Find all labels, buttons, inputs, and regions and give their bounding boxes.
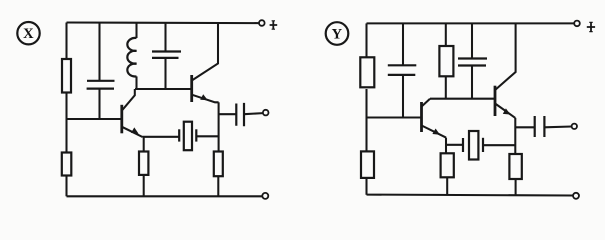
transistor Q1 (122, 89, 143, 137)
wire: Y bottom rail (367, 194, 574, 197)
transistor Q2 (192, 23, 219, 103)
transistor Q4 (495, 23, 516, 118)
resistor R9 (Q4 emitter) (509, 154, 521, 179)
resistor R5 (upper bias) (360, 57, 374, 87)
wire: X Q1 emitter to crystal (143, 136, 180, 138)
svg-text:X: X (23, 26, 34, 42)
transistor Q3 (422, 99, 447, 138)
wire: X left branch lower (R2 to bottom rail) (65, 176, 67, 197)
resistor R7 (collector load) (439, 23, 453, 98)
wire: Y base wire (367, 116, 422, 118)
wire: R4 to bottom rail (217, 176, 219, 196)
wire: crystal to Q4 emitter line (483, 144, 515, 146)
capacitor C1 (base bypass to rail) (87, 23, 115, 120)
terminal: X common (bottom right) (262, 193, 268, 199)
label: Y plus sign (587, 22, 595, 31)
capacitor C6 (output coupling) (535, 116, 545, 137)
terminal: Y output (572, 124, 577, 129)
wire: Y collector node (to Q4 base) (430, 98, 495, 100)
wire: X top supply rail (67, 21, 260, 24)
wire: Y left branch lower (365, 178, 367, 195)
resistor R6 (lower bias) (361, 151, 374, 178)
wire: X base wire (divider node to Q1 base) (67, 118, 122, 120)
wire: Y top supply rail (367, 22, 574, 24)
crystal XTAL2 (463, 131, 483, 160)
label X (circled) (17, 22, 39, 44)
wire: Y left branch upper (365, 23, 367, 57)
wire: X left branch middle (R1 to R2 through base node) (65, 93, 67, 153)
terminal: Y V+ (top right) (574, 21, 580, 27)
resistor R1 (upper bias) (62, 59, 71, 93)
resistor R4 (Q2 emitter) (214, 152, 223, 177)
svg-text:Y: Y (332, 26, 343, 42)
wire: X Q1 emitter resistor drop (143, 137, 145, 152)
inductor L1 (collector tank coil) (127, 23, 136, 90)
wire: Y Q4 emitter vertical (514, 118, 516, 154)
resistor R3 (Q1 emitter) (139, 152, 148, 175)
crystal XTAL1 (179, 122, 196, 151)
terminal: X output (263, 110, 269, 116)
wire: R9 to bottom rail (515, 179, 517, 195)
capacitor C2 (tank capacitor) (152, 23, 181, 90)
capacitor C4 (base bypass) (388, 23, 417, 117)
terminal: X V+ (top right) (259, 20, 265, 26)
terminal: Y common (bottom right) (573, 193, 579, 199)
wire: X Q2 emitter vertical (218, 102, 220, 152)
label Y (circled) (326, 22, 349, 45)
wire: R3 to bottom rail (143, 175, 145, 196)
wire: Y Q3 emitter vertical (445, 138, 447, 154)
wire: Y Q3 emitter to crystal (446, 144, 463, 146)
label: X plus sign (270, 21, 278, 29)
wire: Y left branch middle (365, 89, 367, 151)
wire: X output tap (219, 113, 237, 115)
wire: Y output tap (515, 126, 534, 128)
capacitor C3 (output coupling) (236, 103, 244, 126)
resistor R2 (lower bias) (62, 153, 72, 176)
wire: crystal to Q2 emitter line (196, 135, 218, 137)
wire: C6 to output terminal (544, 125, 571, 128)
wire: X left branch upper (rail to R1) (65, 23, 67, 60)
wire: X bottom rail (67, 195, 263, 197)
wire: X collector node (tank to Q2 base) (135, 88, 192, 90)
wire: R8 to bottom rail (446, 177, 448, 195)
wire: C3 to output terminal (244, 113, 263, 114)
capacitor C5 (collector capacitor) (458, 23, 487, 98)
resistor R8 (Q3 emitter) (441, 153, 454, 177)
